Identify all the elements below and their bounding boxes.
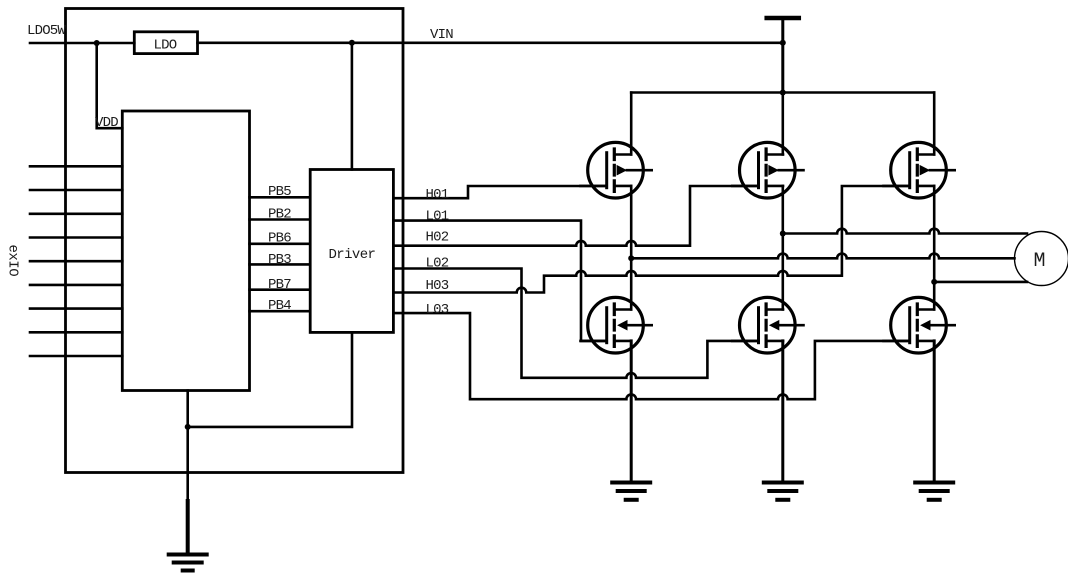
transistor Q5 low-side B [732,297,803,353]
wire power stem [781,20,784,93]
wire L03 [393,313,909,399]
transistor Q1 high-side A [581,142,652,198]
wire exIO stub 5 [30,260,122,263]
svg-text:PB2: PB2 [268,207,291,223]
wire exIO stub 2 [30,189,122,192]
svg-text:PB6: PB6 [268,231,291,247]
wire driver ground return [188,332,352,427]
wire phase column C [933,186,936,310]
wire ground stem thick [186,501,190,553]
ground main [169,555,207,571]
svg-text:L01: L01 [426,209,449,225]
wire VDD [97,43,123,128]
wire H03 [393,186,909,293]
MCU block U1 [122,111,249,391]
wire exIO stub 6 [30,284,122,287]
wire driver supply [351,43,354,170]
wire PB5 [250,196,311,199]
wire Q6 source stem [933,341,936,481]
svg-text:VIN: VIN [430,27,453,43]
svg-text:LDO: LDO [154,38,177,54]
svg-text:PB5: PB5 [268,184,291,200]
node VIN-driver junction [349,40,355,46]
wire L02 [393,269,758,378]
wire exIO stub 7 [30,307,122,310]
Driver block U2 [310,170,393,333]
svg-text:L02: L02 [426,256,449,272]
transistor Q4 low-side A [581,297,652,353]
wire PB4 [250,310,311,313]
wire Q4 source stem [630,341,633,481]
ground C [915,483,953,500]
wire phase column A [630,186,633,310]
node driver-ground junction [185,424,191,430]
motor M1 [1015,232,1068,286]
node LDO5W junction [94,40,100,46]
node phase B tap [780,231,786,237]
wire PB6 [250,243,311,246]
svg-text:M: M [1034,250,1046,273]
svg-text:exIO: exIO [5,245,21,277]
svg-text:H02: H02 [426,230,449,246]
svg-text:LDO5W: LDO5W [27,23,66,39]
svg-text:PB7: PB7 [268,277,291,293]
node VIN rail junction [780,40,786,46]
transistor Q3 high-side C [884,142,955,198]
wire Q1 drain drop [630,93,633,155]
ground B [764,483,802,500]
LDO regulator U3 [134,32,197,54]
wire H01 [393,186,606,198]
svg-text:PB3: PB3 [268,252,291,268]
node phase C tap [931,279,937,285]
wire PB2 [250,218,311,221]
ground A [612,483,650,500]
wire Q2 drain drop [781,93,784,155]
node bus junction [780,90,786,96]
svg-text:L03: L03 [426,302,449,318]
wire Q3 drain drop [933,93,936,155]
power VIN symbol [767,16,799,21]
wire exIO stub 3 [30,213,122,216]
wire exIO stub 8 [30,331,122,334]
svg-text:H03: H03 [426,278,449,294]
wire H02 [393,186,758,246]
node phase A tap [628,255,634,261]
wire L01 [393,221,606,341]
svg-text:PB4: PB4 [268,298,291,314]
wire LDO output VIN rail [198,41,783,44]
wire top drain bus [631,91,934,94]
wire exIO stub 9 [30,355,122,358]
wire PB3 [250,263,311,266]
svg-text:Driver: Driver [329,247,376,263]
wire LDO5W input [30,42,134,45]
transistor Q6 low-side C [884,297,955,353]
svg-text:VDD: VDD [95,115,118,131]
wire phase column B [781,186,784,310]
wire exIO stub 1 [30,165,122,168]
wire phase A to motor [631,253,1014,258]
wire PB7 [250,288,311,291]
wire phase B to motor [783,229,1027,234]
svg-text:H01: H01 [426,187,449,203]
wire phase C to motor [934,281,1027,284]
wire exIO stub 4 [30,236,122,239]
wire Q5 source stem [781,341,784,481]
outer enclosure box [66,9,404,473]
wire MCU ground stem [186,391,189,502]
transistor Q2 high-side B [732,142,803,198]
